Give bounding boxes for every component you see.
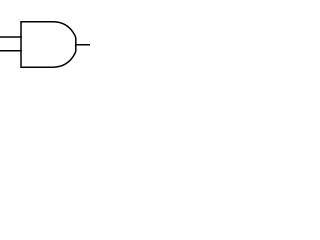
wire input A	[0, 36, 22, 38]
wire output	[76, 44, 90, 46]
AND gate U1	[21, 22, 76, 67]
wire input B	[0, 50, 22, 52]
